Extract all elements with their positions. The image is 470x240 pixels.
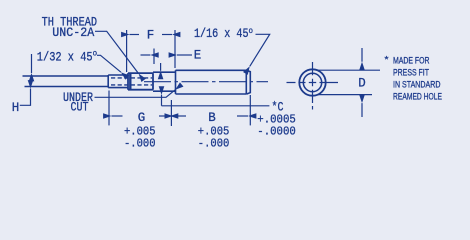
svg-text:MADE FOR: MADE FOR bbox=[393, 56, 430, 67]
svg-text:REAMED HOLE: REAMED HOLE bbox=[393, 92, 442, 103]
svg-text:H: H bbox=[12, 101, 19, 115]
svg-text:UNC-2A: UNC-2A bbox=[52, 26, 94, 40]
svg-text:-.000: -.000 bbox=[198, 136, 230, 150]
svg-text:o: o bbox=[93, 49, 98, 59]
svg-text:D: D bbox=[358, 77, 366, 91]
svg-text:F: F bbox=[147, 29, 155, 43]
svg-text:G: G bbox=[138, 111, 146, 125]
svg-text:CUT: CUT bbox=[71, 101, 89, 115]
svg-text:-.0000: -.0000 bbox=[257, 124, 296, 138]
svg-text:IN STANDARD: IN STANDARD bbox=[393, 80, 441, 91]
svg-text:E: E bbox=[194, 49, 202, 63]
svg-text:1/32 x 45: 1/32 x 45 bbox=[37, 50, 93, 64]
svg-text:B: B bbox=[208, 111, 216, 125]
svg-text:o: o bbox=[249, 26, 254, 36]
svg-text:PRESS FIT: PRESS FIT bbox=[393, 68, 429, 79]
svg-text:*: * bbox=[385, 55, 389, 66]
svg-text:1/16 x 45: 1/16 x 45 bbox=[194, 27, 249, 41]
svg-text:-.000: -.000 bbox=[124, 136, 156, 150]
